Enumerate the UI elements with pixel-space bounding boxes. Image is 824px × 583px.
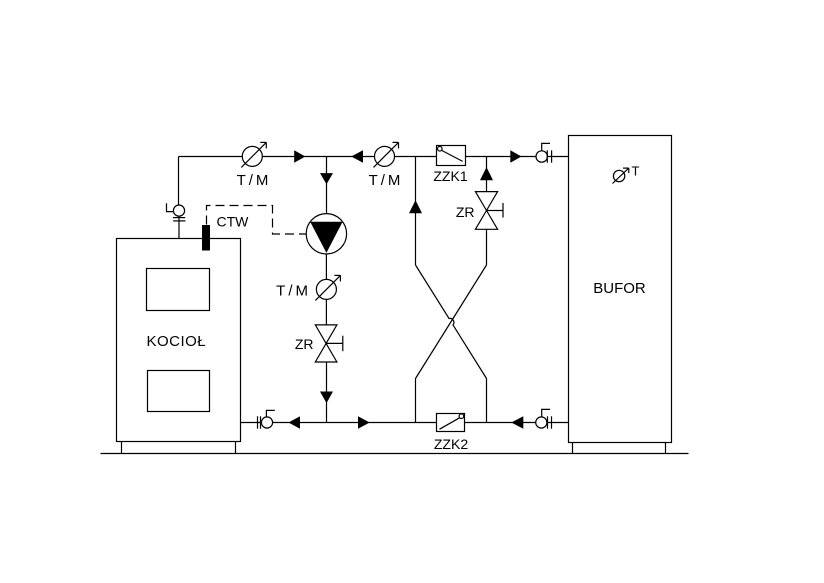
wire: pump line between meter and ZR [325,299,327,325]
flow arrow right (return toward riser) [358,416,370,429]
svg-text:ZR: ZR [295,336,314,352]
flow arrow right (top pipe into buffer) [510,150,521,163]
safety valve on boiler top [167,203,186,238]
buffer base plinth [573,443,666,454]
drain valve (bottom left at boiler) [258,410,275,428]
wire: pump discharge down [325,254,327,280]
valve ZZK1 (motorized shut-off) [437,146,466,166]
flow arrow up (right riser) [480,167,493,180]
flow arrow left (return into boiler) [289,416,301,429]
flow arrow up (left riser) [409,200,422,213]
svg-text:BUFOR: BUFOR [593,280,646,297]
wire: crossing diagonal (left-top to right-bottom) with hop [416,265,487,379]
boiler KOCIOL body [117,239,241,442]
flow arrow down (into bottom pipe) [320,392,333,404]
wire: right riser below ZR [486,229,488,265]
wire: right drop to bottom pipe [486,379,488,423]
svg-text:ZZK1: ZZK1 [433,168,467,184]
wire: right riser (tee at top pipe) [486,157,488,192]
wire: CTW control line (dashed) to pump [207,206,307,235]
temperature sensor symbol in buffer [613,168,629,183]
boiler lower door [148,371,210,412]
svg-text:CTW: CTW [217,214,250,230]
svg-text:T/M: T/M [276,282,311,299]
sensor CTW (immersion sleeve) [202,225,210,251]
flow arrow down (to pump) [320,173,333,184]
ground line [101,453,689,455]
meter T/M (top left) [241,142,266,167]
pump P1 [306,214,346,254]
wire: pump riser from tee [326,157,328,215]
valve ZR (lower balancing valve) [315,325,343,362]
svg-text:T/M: T/M [369,172,404,189]
svg-text:ZZK2: ZZK2 [434,436,468,452]
svg-text:T/M: T/M [237,172,272,189]
flow arrow right (into pump tee) [294,150,305,163]
buffer tank BUFOR [569,136,672,443]
svg-text:T: T [632,163,640,178]
wire: left riser (tee at top pipe) [415,157,417,266]
flow arrow left (from buffer to pump tee) [351,150,363,163]
wire: crossing diagonal (right-top to left-bottom) [416,265,487,379]
boiler base plinth [122,442,236,454]
shut-off valve with drain (bottom right at buffer) [536,409,552,428]
boiler upper door [147,269,210,311]
svg-text:ZR: ZR [456,204,475,220]
meter T/M (pump line) [315,275,340,300]
wire: left drop to bottom pipe [415,379,417,423]
wire: top supply pipe [179,156,569,158]
wire: boiler outlet riser [178,157,180,206]
valve ZR (upper balancing valve) [475,192,503,230]
flow arrow left (from buffer bottom) [511,416,523,429]
wire: bottom return pipe [241,422,569,424]
valve ZZK2 (motorized shut-off) [437,414,465,432]
wire: pump line to bottom pipe [326,362,328,423]
meter T/M (top middle) [374,142,399,167]
shut-off valve with drain (top right at buffer) [536,143,552,162]
svg-text:KOCIOŁ: KOCIOŁ [146,333,206,350]
